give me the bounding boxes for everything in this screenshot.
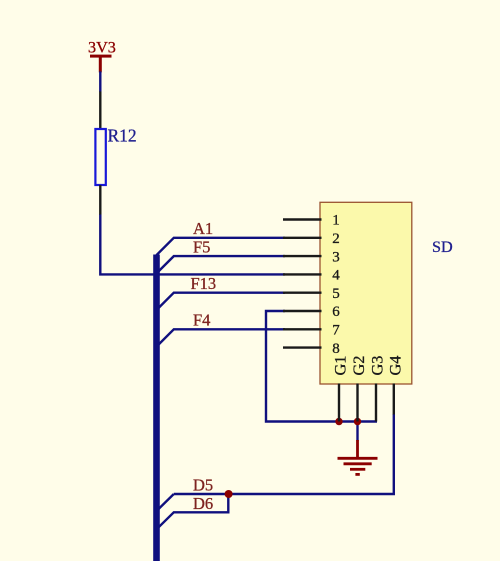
resistor R12 body xyxy=(95,129,105,185)
junction G2 xyxy=(354,418,361,425)
svg-text:R12: R12 xyxy=(108,126,137,146)
pin G3 xyxy=(375,384,377,422)
svg-text:3: 3 xyxy=(332,249,340,265)
pin 6 xyxy=(283,310,322,312)
resistor R12 pin 1 xyxy=(99,92,101,130)
wire net D6 xyxy=(157,494,229,529)
wire R12 to pin4 of SD xyxy=(100,215,285,275)
pin G4 xyxy=(393,384,395,415)
wire net F5 xyxy=(157,256,286,273)
svg-text:8: 8 xyxy=(332,341,340,357)
svg-text:F5: F5 xyxy=(193,237,210,256)
power symbol 3V3 bar xyxy=(90,55,112,58)
svg-text:F4: F4 xyxy=(193,311,210,330)
power symbol 3V3 stem xyxy=(99,56,102,72)
wire net F13 xyxy=(157,293,286,310)
pin 4 xyxy=(283,273,322,275)
svg-text:2: 2 xyxy=(332,231,340,247)
resistor R12 pin 2 xyxy=(99,185,101,215)
svg-text:A1: A1 xyxy=(193,219,213,238)
svg-text:D5: D5 xyxy=(193,476,213,495)
junction D5/D6 xyxy=(225,490,233,498)
wire net A1 xyxy=(157,238,286,255)
pin G2 xyxy=(356,384,358,422)
wire net F4 xyxy=(157,329,286,346)
svg-text:7: 7 xyxy=(332,323,340,339)
pin 5 xyxy=(283,292,322,294)
svg-text:SD: SD xyxy=(432,238,453,256)
junction G1 xyxy=(335,418,342,425)
pin G1 xyxy=(338,384,340,422)
component SD box xyxy=(320,202,412,384)
svg-text:1: 1 xyxy=(332,213,340,229)
wire thick vertical bus xyxy=(153,255,160,561)
svg-text:F13: F13 xyxy=(191,274,217,293)
wire 3V3 to R12 xyxy=(99,71,101,92)
svg-text:G2: G2 xyxy=(349,356,368,376)
ground symbol xyxy=(338,440,378,474)
svg-text:4: 4 xyxy=(332,268,340,284)
svg-text:6: 6 xyxy=(332,304,340,320)
svg-text:5: 5 xyxy=(332,286,340,302)
svg-text:G1: G1 xyxy=(331,356,350,376)
ground stem wire xyxy=(356,422,358,442)
pin 7 xyxy=(283,328,322,330)
pin 3 xyxy=(283,255,322,257)
wire G4 down to D5 xyxy=(174,414,394,494)
pin 8 xyxy=(283,346,322,348)
pin 1 xyxy=(283,218,322,220)
svg-text:G4: G4 xyxy=(385,356,404,376)
wire net D5 diagonal xyxy=(157,494,174,511)
svg-text:3V3: 3V3 xyxy=(88,39,116,57)
svg-text:D6: D6 xyxy=(193,494,213,513)
pin 2 xyxy=(283,237,322,239)
svg-text:G3: G3 xyxy=(368,356,387,376)
wire pin6 to ground rail xyxy=(266,311,377,422)
